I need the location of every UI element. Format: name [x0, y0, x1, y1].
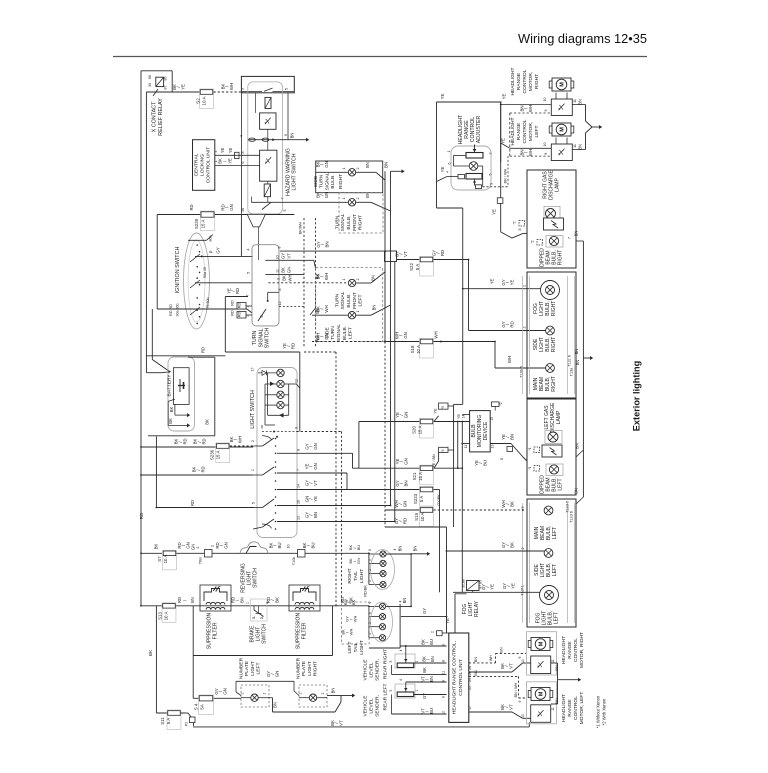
svg-text:VT: VT: [287, 253, 292, 259]
svg-text:LIGHT: LIGHT: [250, 661, 256, 675]
svg-text:6: 6: [368, 612, 372, 614]
svg-text:*1 Without Xenon: *1 Without Xenon: [596, 695, 601, 728]
svg-text:MOTOR, LEFT: MOTOR, LEFT: [579, 692, 585, 725]
svg-text:IGNITION SWITCH: IGNITION SWITCH: [175, 247, 181, 294]
svg-text:HEADLIGHT: HEADLIGHT: [561, 694, 567, 722]
svg-text:13: 13: [491, 445, 495, 449]
svg-text:6: 6: [448, 163, 452, 165]
svg-text:LEFT: LEFT: [534, 126, 540, 138]
svg-text:RD/BK: RD/BK: [364, 585, 368, 597]
svg-text:BN: BN: [384, 162, 389, 168]
svg-text:15 A: 15 A: [201, 220, 206, 229]
svg-text:LEFT: LEFT: [348, 327, 354, 339]
svg-text:YE: YE: [180, 84, 185, 90]
svg-text:1: 1: [368, 569, 372, 571]
svg-text:RD: RD: [230, 310, 235, 316]
svg-text:BN: BN: [574, 488, 579, 494]
svg-text:NUMBER: NUMBER: [295, 657, 301, 679]
svg-text:SIGNAL: SIGNAL: [336, 324, 342, 342]
svg-text:BN: BN: [413, 546, 418, 552]
svg-text:MOTOR, RIGHT: MOTOR, RIGHT: [579, 632, 585, 668]
svg-text:10 A: 10 A: [202, 95, 207, 105]
svg-text:10 A: 10 A: [420, 513, 425, 522]
svg-text:RIGHT: RIGHT: [534, 74, 540, 89]
svg-text:11: 11: [573, 144, 577, 148]
svg-text:2: 2: [356, 279, 360, 281]
svg-text:SWITCH: SWITCH: [253, 568, 259, 588]
svg-text:11: 11: [573, 99, 577, 103]
svg-text:BK: BK: [509, 501, 514, 507]
svg-text:BN: BN: [402, 598, 407, 604]
svg-text:RIGHT: RIGHT: [551, 376, 557, 392]
svg-text:YE: YE: [509, 280, 514, 286]
svg-text:HEADLIGHT: HEADLIGHT: [561, 636, 567, 664]
svg-text:*1: *1: [528, 466, 532, 469]
svg-text:4: 4: [393, 548, 397, 550]
svg-text:BN: BN: [577, 99, 582, 105]
svg-text:S13: S13: [158, 612, 163, 620]
svg-text:SIGNAL: SIGNAL: [258, 328, 264, 347]
svg-text:16: 16: [241, 208, 245, 212]
svg-text:19: 19: [468, 672, 472, 676]
svg-text:8: 8: [518, 229, 522, 231]
svg-text:SENDER,: SENDER,: [375, 695, 381, 717]
svg-text:4: 4: [399, 679, 403, 681]
svg-text:BN: BN: [372, 305, 377, 311]
svg-text:4: 4: [399, 649, 403, 651]
svg-text:WH: WH: [528, 149, 533, 156]
svg-text:11: 11: [442, 671, 446, 675]
svg-text:BU: BU: [429, 639, 434, 645]
svg-text:BN: BN: [575, 443, 580, 449]
svg-text:9: 9: [442, 680, 446, 682]
svg-text:GY: GY: [422, 608, 427, 614]
svg-text:YE: YE: [313, 496, 318, 502]
svg-text:BK: BK: [281, 267, 286, 273]
svg-text:GN: GN: [223, 542, 228, 549]
svg-text:LOCKING: LOCKING: [199, 154, 205, 176]
svg-text:2: 2: [356, 198, 360, 200]
svg-text:WH: WH: [324, 273, 329, 280]
svg-text:VEHICLE: VEHICLE: [362, 659, 368, 681]
svg-text:TURN: TURN: [334, 293, 340, 307]
svg-text:CONTROL: CONTROL: [470, 117, 476, 142]
svg-text:GN: GN: [229, 204, 234, 211]
svg-text:S18: S18: [410, 345, 415, 353]
svg-text:YE: YE: [440, 167, 445, 173]
svg-text:WH: WH: [288, 275, 293, 282]
svg-text:17: 17: [468, 706, 472, 710]
svg-text:WH: WH: [489, 655, 493, 662]
svg-text:BN: BN: [429, 676, 434, 682]
svg-text:RANGE: RANGE: [567, 699, 573, 717]
svg-text:CONTROL: CONTROL: [573, 638, 579, 662]
svg-text:BK: BK: [168, 418, 173, 424]
svg-text:BK/WH: BK/WH: [299, 222, 303, 235]
svg-text:9: 9: [544, 153, 548, 155]
svg-text:BN: BN: [331, 688, 336, 694]
svg-text:REAR LEFT: REAR LEFT: [383, 684, 389, 711]
svg-text:YE: YE: [502, 94, 507, 100]
svg-text:GN: GN: [222, 688, 227, 695]
svg-text:50a 15: 50a 15: [203, 267, 207, 278]
svg-text:5: 5: [283, 210, 287, 212]
svg-text:*1: *1: [528, 447, 532, 450]
svg-text:1: 1: [523, 285, 527, 287]
svg-text:WH: WH: [528, 105, 533, 112]
svg-text:PLATE: PLATE: [244, 660, 250, 676]
svg-text:BN: BN: [577, 144, 582, 150]
svg-text:BU: BU: [310, 542, 315, 548]
svg-text:2: 2: [196, 546, 200, 548]
svg-text:GY: GY: [216, 247, 221, 253]
svg-text:25: 25: [468, 678, 472, 682]
svg-text:BK: BK: [169, 407, 174, 413]
svg-text:YE: YE: [457, 414, 461, 420]
svg-text:6: 6: [368, 549, 372, 551]
svg-text:P2: P2: [185, 722, 189, 726]
svg-text:3: 3: [490, 183, 494, 185]
svg-text:T12d 6: T12d 6: [570, 511, 574, 523]
svg-text:GN: GN: [403, 332, 408, 339]
svg-text:BN: BN: [509, 434, 514, 440]
svg-text:LEFT: LEFT: [552, 564, 558, 576]
svg-text:BN: BN: [554, 698, 559, 704]
svg-text:30a 30b: 30a 30b: [175, 304, 179, 317]
svg-text:NUMBER: NUMBER: [238, 657, 244, 679]
svg-text:13: 13: [297, 516, 301, 520]
svg-text:1: 1: [368, 633, 372, 635]
svg-text:CONTROL: CONTROL: [522, 69, 528, 93]
svg-text:RANGE: RANGE: [516, 122, 522, 140]
svg-text:RIGHT: RIGHT: [313, 661, 319, 676]
svg-text:LIGHT SWITCH: LIGHT SWITCH: [250, 390, 256, 429]
svg-text:3: 3: [277, 278, 281, 280]
svg-text:75 50b: 75 50b: [206, 298, 210, 309]
svg-text:10 A: 10 A: [416, 345, 421, 354]
svg-text:BU: BU: [482, 460, 487, 466]
svg-text:TAIL: TAIL: [353, 571, 359, 581]
svg-text:15 A: 15 A: [418, 472, 423, 481]
svg-text:YE: YE: [445, 618, 450, 624]
svg-text:RD: RD: [235, 288, 240, 294]
svg-text:LIGHT: LIGHT: [307, 661, 313, 675]
svg-text:LIGHT SWITCH: LIGHT SWITCH: [292, 153, 298, 190]
svg-text:YE: YE: [501, 138, 506, 144]
svg-text:9: 9: [295, 427, 299, 429]
svg-text:YE: YE: [220, 148, 225, 154]
svg-text:5: 5: [368, 622, 372, 624]
svg-text:4: 4: [446, 171, 450, 173]
svg-text:BN: BN: [574, 231, 579, 237]
svg-text:BULB.: BULB.: [330, 174, 336, 188]
svg-text:9: 9: [278, 246, 282, 248]
svg-text:VEHICLE: VEHICLE: [362, 695, 368, 717]
svg-text:1: 1: [342, 198, 346, 200]
svg-text:WH: WH: [507, 356, 512, 363]
svg-text:RD: RD: [230, 300, 235, 306]
svg-text:RD: RD: [139, 512, 144, 519]
svg-text:RANGE: RANGE: [567, 641, 573, 659]
svg-text:BN: BN: [190, 597, 195, 603]
svg-text:5 A: 5 A: [419, 496, 424, 502]
svg-text:LEFT: LEFT: [554, 612, 560, 624]
svg-text:2: 2: [489, 153, 493, 155]
svg-text:WH: WH: [237, 436, 242, 443]
svg-text:*4: *4: [441, 449, 445, 452]
svg-text:BU: BU: [277, 542, 282, 548]
svg-text:12: 12: [295, 379, 299, 383]
svg-text:8: 8: [278, 288, 282, 290]
svg-text:15: 15: [490, 417, 494, 421]
svg-text:*2: *2: [499, 402, 503, 405]
svg-text:LEFT: LEFT: [358, 295, 364, 307]
svg-text:8: 8: [297, 449, 301, 451]
svg-text:BN: BN: [398, 546, 403, 552]
svg-text:S22: S22: [409, 263, 414, 271]
svg-text:LEFT: LEFT: [256, 663, 262, 675]
svg-text:RD: RD: [201, 347, 206, 353]
svg-text:5: 5: [368, 559, 372, 561]
svg-text:12: 12: [278, 302, 282, 306]
svg-text:10: 10: [287, 545, 291, 549]
svg-text:2: 2: [251, 440, 255, 442]
svg-text:YE: YE: [228, 158, 233, 164]
svg-text:*5: *5: [441, 406, 445, 409]
svg-text:T12c 6: T12c 6: [568, 355, 572, 367]
svg-text:3L: 3L: [252, 616, 256, 620]
svg-text:GN: GN: [356, 558, 361, 564]
svg-text:CENTRAL: CENTRAL: [193, 153, 199, 176]
svg-text:T10k: T10k: [292, 557, 296, 566]
svg-text:SIDE: SIDE: [313, 175, 319, 187]
svg-text:BK: BK: [509, 542, 514, 548]
svg-text:2: 2: [263, 692, 267, 694]
svg-text:11: 11: [276, 269, 280, 273]
svg-text:YE: YE: [510, 583, 515, 589]
svg-text:HAZARD WARNING: HAZARD WARNING: [285, 148, 291, 196]
svg-text:10: 10: [276, 255, 280, 259]
svg-text:2: 2: [368, 601, 372, 603]
svg-text:16: 16: [297, 500, 301, 504]
svg-text:5 A: 5 A: [166, 718, 171, 724]
svg-text:S19: S19: [414, 513, 419, 521]
svg-text:10: 10: [521, 659, 525, 663]
svg-text:8: 8: [500, 458, 504, 460]
svg-text:10 A: 10 A: [164, 612, 169, 621]
svg-text:WH: WH: [353, 616, 358, 623]
svg-text:T13b 5: T13b 5: [520, 366, 524, 378]
svg-text:1: 1: [415, 660, 419, 662]
svg-text:LAMP: LAMP: [555, 178, 561, 192]
svg-text:RD: RD: [290, 343, 295, 349]
svg-text:S7: S7: [157, 556, 162, 562]
svg-text:DISCHARGE: DISCHARGE: [549, 169, 555, 199]
svg-text:YE: YE: [440, 94, 445, 100]
svg-text:30: 30: [148, 83, 152, 87]
svg-text:BN: BN: [289, 133, 294, 139]
svg-text:GY: GY: [422, 693, 427, 699]
svg-text:9: 9: [544, 110, 548, 112]
svg-text:BN: BN: [430, 656, 435, 662]
svg-text:RD: RD: [238, 312, 242, 318]
svg-text:SIGNAL: SIGNAL: [340, 291, 346, 309]
svg-text:BULB,: BULB,: [346, 215, 352, 229]
svg-text:BN: BN: [473, 657, 478, 663]
svg-text:11: 11: [464, 445, 468, 449]
svg-text:BU: BU: [356, 545, 361, 551]
svg-text:GN: GN: [324, 333, 329, 340]
svg-text:GN: GN: [324, 192, 329, 199]
svg-text:2: 2: [521, 548, 525, 550]
svg-text:CONTROL UNIT: CONTROL UNIT: [458, 659, 464, 696]
svg-text:DISCHARGE: DISCHARGE: [550, 402, 556, 432]
svg-text:14: 14: [461, 415, 465, 419]
svg-text:X CONTACT: X CONTACT: [151, 101, 157, 132]
svg-text:T13a: T13a: [570, 367, 574, 377]
svg-text:LEFT: LEFT: [552, 527, 558, 539]
svg-text:87: 87: [163, 86, 167, 90]
svg-text:2: 2: [356, 168, 360, 170]
svg-text:DEVICE: DEVICE: [483, 421, 489, 440]
svg-text:2: 2: [368, 580, 372, 582]
svg-text:*2: *2: [531, 240, 535, 243]
svg-text:20: 20: [468, 686, 472, 690]
svg-text:BN: BN: [499, 647, 504, 653]
svg-text:LEFT: LEFT: [558, 478, 564, 490]
svg-text:TURN: TURN: [319, 174, 325, 188]
svg-text:BN / WH: BN / WH: [514, 682, 518, 697]
svg-text:1: 1: [415, 689, 419, 691]
svg-text:MOTOR,: MOTOR,: [528, 122, 534, 141]
svg-text:YE: YE: [433, 408, 438, 414]
svg-text:BN: BN: [365, 162, 370, 168]
svg-text:GN: GN: [403, 458, 408, 465]
svg-text:BN / WH: BN / WH: [504, 168, 508, 183]
svg-text:2L: 2L: [260, 616, 264, 620]
svg-text:5: 5: [389, 660, 393, 662]
svg-text:1: 1: [299, 692, 303, 694]
svg-text:YE: YE: [228, 148, 233, 154]
svg-text:YE / BN: YE / BN: [432, 454, 436, 468]
svg-text:RD RD: RD RD: [169, 304, 173, 316]
svg-text:BK: BK: [351, 600, 356, 606]
svg-text:S20: S20: [412, 426, 417, 434]
svg-text:BK: BK: [154, 544, 159, 550]
svg-text:SIGNAL: SIGNAL: [324, 172, 330, 190]
svg-text:4: 4: [246, 248, 250, 250]
svg-text:HEADLIGHT: HEADLIGHT: [510, 117, 516, 145]
svg-text:VT: VT: [508, 663, 513, 669]
svg-text:BN: BN: [371, 275, 376, 281]
svg-text:BK: BK: [205, 419, 210, 425]
svg-text:RIGHT: RIGHT: [558, 250, 564, 266]
svg-text:BATTERY: BATTERY: [166, 374, 172, 397]
svg-text:5: 5: [246, 272, 250, 274]
svg-text:GY/BK: GY/BK: [437, 494, 441, 506]
svg-text:RD: RD: [202, 438, 207, 444]
svg-text:M: M: [539, 691, 545, 696]
svg-text:RD: RD: [189, 204, 194, 210]
svg-text:1: 1: [356, 311, 360, 313]
svg-text:10: 10: [543, 143, 547, 147]
svg-text:5: 5: [252, 502, 256, 504]
svg-text:RIGHT: RIGHT: [338, 174, 344, 189]
svg-text:1: 1: [342, 279, 346, 281]
svg-text:2: 2: [321, 692, 325, 694]
svg-text:HEADLIGHT RANGE CONTROL,: HEADLIGHT RANGE CONTROL,: [451, 641, 457, 714]
svg-text:M: M: [560, 127, 566, 132]
svg-text:CONTROL UNIT: CONTROL UNIT: [205, 147, 211, 184]
svg-text:RELIEF RELAY: RELIEF RELAY: [158, 98, 164, 136]
svg-text:5A: 5A: [200, 704, 205, 709]
svg-text:BULB.: BULB.: [342, 326, 348, 340]
svg-text:BN: BN: [313, 512, 318, 518]
svg-text:LIGHT: LIGHT: [359, 640, 365, 654]
svg-text:15 A: 15 A: [216, 451, 221, 460]
svg-text:WH: WH: [229, 83, 234, 90]
svg-text:RD: RD: [201, 466, 206, 472]
svg-text:REAR RIGHT: REAR RIGHT: [383, 649, 389, 679]
svg-text:LEFT GAS: LEFT GAS: [544, 405, 550, 430]
svg-text:FILTER: FILTER: [302, 622, 308, 639]
svg-text:11: 11: [551, 659, 555, 663]
svg-text:12: 12: [442, 711, 446, 715]
svg-text:YE: YE: [490, 279, 495, 285]
svg-text:FILTER: FILTER: [213, 622, 219, 639]
svg-text:RD: RD: [183, 438, 188, 444]
svg-text:CONTROL: CONTROL: [522, 119, 528, 143]
svg-text:BN: BN: [240, 597, 245, 603]
svg-text:BK: BK: [422, 667, 427, 673]
svg-text:TURN: TURN: [330, 326, 336, 340]
svg-text:8: 8: [442, 660, 446, 662]
svg-text:1: 1: [246, 602, 250, 604]
svg-text:1: 1: [251, 469, 255, 471]
svg-text:RANGE: RANGE: [464, 120, 470, 139]
svg-text:MOTOR,: MOTOR,: [528, 72, 534, 91]
svg-text:LEVEL: LEVEL: [369, 662, 375, 678]
svg-text:S21: S21: [412, 472, 417, 480]
svg-text:2: 2: [211, 545, 215, 547]
svg-text:S223: S223: [413, 493, 418, 504]
svg-text:TAIL: TAIL: [353, 642, 359, 652]
svg-text:GN: GN: [313, 463, 318, 470]
svg-text:WH: WH: [324, 305, 329, 312]
svg-text:SWITCH: SWITCH: [262, 624, 268, 644]
svg-text:GN: GN: [324, 161, 329, 168]
svg-text:VT: VT: [508, 704, 513, 710]
svg-text:30,86: 30,86: [462, 579, 466, 588]
svg-text:RANGE: RANGE: [516, 72, 522, 90]
svg-text:2: 2: [523, 327, 527, 329]
svg-text:RIGHT: RIGHT: [551, 301, 557, 317]
svg-text:10: 10: [521, 714, 525, 718]
svg-text:BN: BN: [403, 480, 408, 486]
svg-text:*2: *2: [513, 221, 517, 224]
svg-text:M: M: [539, 641, 545, 646]
svg-text:9: 9: [518, 700, 522, 702]
svg-text:86a: 86a: [209, 236, 213, 242]
svg-text:BN: BN: [574, 349, 579, 355]
svg-text:YE: YE: [489, 584, 494, 590]
svg-text:RD: RD: [190, 500, 195, 506]
svg-text:FRONT: FRONT: [352, 292, 358, 309]
svg-text:TURN: TURN: [252, 331, 258, 346]
svg-text:HEADLIGHT: HEADLIGHT: [458, 114, 464, 145]
svg-text:CONTROL: CONTROL: [573, 696, 579, 720]
svg-text:P: P: [209, 250, 214, 253]
